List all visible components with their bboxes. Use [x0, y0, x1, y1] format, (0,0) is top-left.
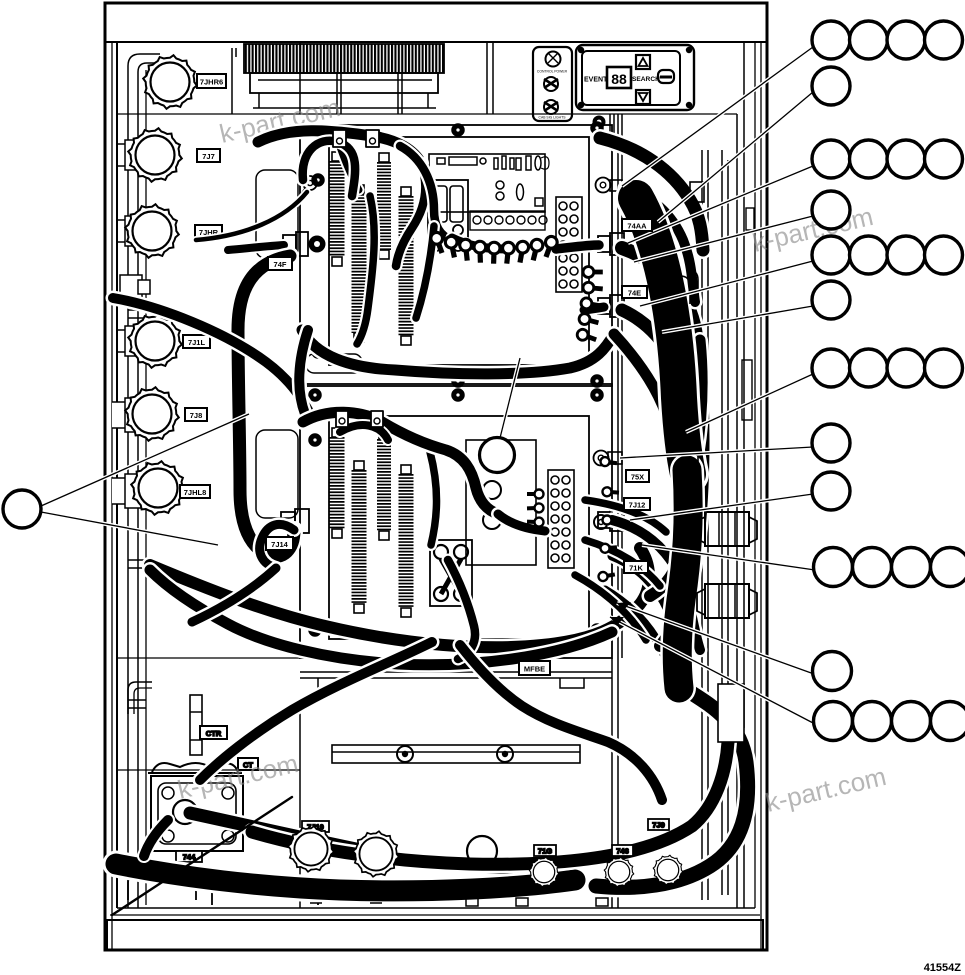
svg-text:SEARCH: SEARCH	[632, 76, 660, 83]
wire: lower terminal fan right	[612, 520, 700, 650]
heatsink resistor bank top	[232, 42, 493, 114]
svg-text:74F: 74F	[274, 260, 287, 269]
svg-text:EVENT: EVENT	[584, 77, 608, 84]
wire: CT down-left bottom	[116, 864, 575, 891]
PCB card	[429, 154, 545, 212]
connector 7JHL8	[112, 474, 155, 508]
wire: weave strand 1	[396, 163, 425, 266]
svg-text:7JHL8: 7JHL8	[184, 488, 207, 497]
wire: lower panel bottom exit right	[460, 645, 662, 800]
terminal row	[470, 211, 547, 230]
eyelet on right edge (to 74AA row)	[596, 178, 611, 193]
wire: stub to 74E plug	[584, 307, 604, 310]
coil resistor R7	[377, 439, 391, 531]
wire: thin strap bottom-left	[112, 797, 292, 915]
CTR shaft	[190, 695, 202, 755]
connector 7JHR6	[143, 55, 197, 109]
coil resistor R3	[377, 162, 391, 250]
74F plug on left edge	[283, 235, 296, 254]
wire: 74E fan	[622, 310, 688, 437]
svg-text:74E: 74E	[628, 289, 641, 298]
panel screws	[309, 389, 321, 401]
gap band bracket	[306, 354, 362, 373]
connector 7J7	[118, 140, 139, 170]
feet	[128, 876, 196, 900]
wire: harness into lug row	[452, 238, 506, 249]
CT clamp	[152, 763, 238, 772]
connector 7J8	[112, 398, 139, 432]
coil resistor R2	[352, 194, 367, 333]
coil resistor R1	[330, 161, 345, 257]
left column gear connectors	[112, 55, 226, 515]
wire: stub to 74AA plug	[556, 245, 599, 249]
svg-text:7JHR6: 7JHR6	[200, 78, 223, 87]
wire: loop to coils	[303, 141, 355, 196]
right wall connectors	[680, 182, 757, 742]
lug fans upper panel	[429, 231, 603, 345]
wire: relay block to bottom	[448, 560, 475, 659]
under-panel brackets and rails	[300, 658, 612, 908]
connector 7JHR	[118, 216, 139, 246]
74E plug right edge	[598, 298, 610, 314]
wire: lower panel to CT	[200, 642, 432, 780]
svg-text:7J1L: 7J1L	[188, 338, 206, 347]
wire: left cable into 74F plug	[228, 245, 284, 250]
wire: bottom sweep parallel	[252, 742, 728, 864]
eyelet terminal upper-left	[303, 176, 317, 190]
wire: upper panel top harness	[258, 131, 421, 163]
relay block	[430, 540, 472, 606]
CT transformer box	[151, 776, 243, 851]
wire: lower fan extra 1	[585, 500, 666, 532]
wire: lower-left big loop	[150, 548, 649, 647]
wire: left diagonal	[113, 298, 308, 410]
svg-text:74AA: 74AA	[627, 222, 647, 231]
svg-text:71K: 71K	[629, 564, 643, 573]
svg-text:7J8: 7J8	[190, 411, 203, 420]
wire: left vertical band	[238, 256, 294, 556]
svg-text:7J9: 7J9	[652, 821, 665, 830]
7J12 plug right edge	[598, 512, 610, 528]
node circle mid lower panel	[480, 438, 515, 473]
wire: weave strand 4	[416, 226, 434, 318]
75X eyelet right edge	[594, 451, 609, 466]
relay block	[428, 180, 468, 242]
cable clamps on upper panel top	[333, 130, 379, 147]
panel screws	[312, 174, 324, 186]
svg-text:CTR: CTR	[206, 729, 222, 738]
wire: lower panel strand	[430, 452, 437, 545]
wire: top-right exit harness	[600, 138, 703, 250]
floating labels	[266, 219, 652, 675]
wire: right band solid mass	[636, 198, 688, 474]
svg-text:41554Z: 41554Z	[924, 962, 962, 974]
EVENT recorder panel	[576, 45, 694, 140]
wire: top fan from eyelet	[625, 188, 695, 302]
wire: 7J14 fan strand	[192, 568, 276, 622]
cabinet outer frame	[105, 3, 767, 950]
coil resistor R5	[330, 437, 345, 529]
wire: weave strand 2	[400, 146, 508, 240]
svg-text:7J12: 7J12	[629, 501, 646, 510]
right rail	[618, 42, 744, 908]
wire: lower coil loops	[340, 425, 388, 440]
callout circles right	[3, 21, 965, 741]
svg-text:CONTROL POWER: CONTROL POWER	[537, 70, 568, 74]
switch panel (control power)	[533, 47, 572, 121]
wire: right band descend to bottom hook	[596, 684, 748, 887]
74AA plug right edge	[598, 236, 610, 252]
wire: eyelet wire to 74F	[196, 192, 307, 240]
wire: upper panel bottom sweep	[302, 330, 614, 374]
lower resistor panel	[281, 384, 624, 658]
svg-text:88: 88	[611, 71, 627, 87]
7J14 plug on left edge	[281, 512, 295, 530]
lug fans lower panel	[527, 457, 619, 582]
white card	[466, 440, 536, 565]
wire: solid mass lower	[677, 470, 688, 688]
cable harness layer	[112, 130, 748, 915]
cable clamps on lower panel top	[336, 411, 383, 427]
svg-text:MFBE: MFBE	[524, 665, 545, 674]
lone bolt	[120, 275, 150, 299]
wire: CT cable to bottom sweep	[190, 813, 535, 868]
wire: 74AA fan to right band	[622, 248, 701, 396]
svg-text:7J7: 7J7	[202, 152, 215, 161]
wire: weave strand 3	[357, 196, 374, 344]
svg-text:7J14: 7J14	[271, 540, 289, 549]
wire: clamp1 drop	[340, 147, 359, 190]
leader lines	[41, 47, 815, 724]
wire: lower fan extra 3	[575, 575, 646, 640]
terminal strip vertical	[548, 470, 574, 568]
svg-text:75X: 75X	[631, 473, 644, 482]
wire: right vertical band	[670, 396, 702, 684]
wire: lower panel top harness	[303, 412, 498, 514]
bracket left of upper panel	[256, 170, 298, 518]
coil resistor R8	[399, 474, 414, 608]
svg-text:746: 746	[616, 847, 629, 856]
wire: right band parallel 2	[648, 220, 685, 646]
terminal strip vertical	[556, 197, 582, 292]
CT area bottom-left	[128, 682, 318, 905]
wire: panel corner to right band	[614, 334, 666, 414]
svg-text:CAB SIG LIGHTS: CAB SIG LIGHTS	[539, 116, 567, 120]
left rail	[128, 54, 160, 908]
upper resistor panel	[283, 122, 624, 387]
wire: lower fan extra 2	[585, 540, 660, 586]
connector 7J1L	[118, 326, 139, 356]
wire: right band parallel 3	[688, 340, 702, 562]
coil resistor R4	[399, 196, 414, 336]
svg-text:71G: 71G	[538, 847, 552, 856]
coil resistor R6	[352, 470, 367, 604]
bottom connector row	[288, 819, 683, 906]
left callout	[3, 490, 41, 528]
wire: small hook near 7J14	[260, 524, 294, 568]
